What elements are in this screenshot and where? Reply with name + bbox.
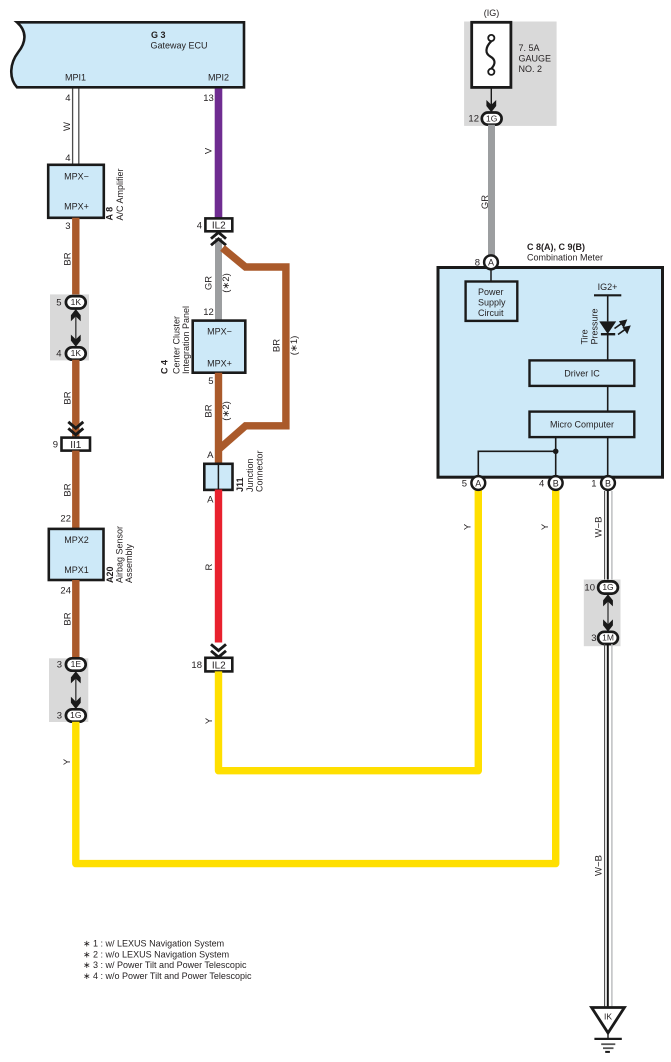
- wire Y from IL2 pin 18 to combination meter pin 5A: [219, 491, 479, 771]
- svg-text:A 8: A 8: [105, 207, 115, 221]
- svg-text:IK: IK: [604, 1012, 612, 1022]
- svg-text:9: 9: [53, 440, 58, 451]
- svg-text:10: 10: [584, 583, 595, 594]
- svg-text:Power: Power: [478, 287, 504, 297]
- svg-text:3: 3: [57, 660, 62, 671]
- svg-text:J11: J11: [235, 477, 245, 492]
- svg-text:A: A: [207, 450, 214, 461]
- connector 12 (1G): [482, 113, 502, 125]
- pin 8 (A): [484, 255, 498, 269]
- power supply circuit box: [466, 282, 518, 321]
- wire micro computer to pin 1B: [607, 437, 609, 477]
- wire micro computer to junction: [555, 437, 557, 477]
- svg-text:Connector: Connector: [255, 450, 265, 492]
- connector 3 (1M): [598, 632, 618, 644]
- svg-text:Y: Y: [463, 523, 474, 530]
- svg-text:Pressure: Pressure: [590, 308, 600, 344]
- junction dot: [553, 449, 559, 455]
- svg-text:1: 1: [591, 479, 596, 490]
- center cluster integration panel C4 box: [193, 321, 246, 373]
- svg-text:1G: 1G: [70, 710, 81, 720]
- wire V (purple) MPI2 to IL2: [215, 89, 223, 219]
- svg-text:∗ 1 : w/ LEXUS Navigation Syst: ∗ 1 : w/ LEXUS Navigation System: [83, 939, 224, 949]
- svg-text:IG2+: IG2+: [598, 282, 618, 292]
- svg-text:(∗2): (∗2): [221, 273, 232, 293]
- A/C amplifier A8 box: [48, 165, 104, 218]
- svg-text:IL2: IL2: [212, 221, 226, 232]
- micro computer box: [530, 412, 635, 438]
- svg-text:4: 4: [197, 220, 202, 231]
- svg-text:Airbag Sensor: Airbag Sensor: [115, 526, 125, 583]
- svg-text:MPX+: MPX+: [207, 358, 232, 368]
- svg-text:NO. 2: NO. 2: [519, 64, 543, 74]
- svg-text:24: 24: [60, 586, 71, 597]
- wire BR II1 to airbag sensor: [72, 451, 79, 529]
- svg-text:5: 5: [208, 376, 213, 387]
- double arrow between 1E and 1G: [75, 676, 77, 704]
- svg-text:4: 4: [56, 349, 61, 360]
- gateway ECU G3 box: [11, 22, 244, 87]
- wire pin A to power supply circuit: [490, 270, 492, 282]
- wire junction to pin 5A: [478, 451, 555, 477]
- svg-text:A: A: [475, 478, 481, 488]
- wire BR airbag sensor to 1E: [72, 580, 79, 659]
- svg-text:1E: 1E: [71, 659, 82, 669]
- svg-text:12: 12: [468, 114, 479, 125]
- connector block 1G/1M gray box: [584, 580, 621, 647]
- svg-text:Circuit: Circuit: [478, 308, 504, 318]
- connector IL2 (pin 4): [205, 218, 232, 231]
- wire W (white) MPI1 to A/C amplifier: [72, 89, 74, 165]
- svg-text:∗ 4 : w/o Power Tilt and Power: ∗ 4 : w/o Power Tilt and Power Telescopi…: [83, 971, 252, 981]
- svg-text:C 8(A), C 9(B): C 8(A), C 9(B): [527, 242, 585, 252]
- pin 4 (B): [549, 476, 563, 490]
- wire Y from connector 1G to combination meter pin 4B: [76, 491, 556, 864]
- connector 3 (1E): [66, 658, 86, 670]
- svg-text:MPI2: MPI2: [208, 73, 229, 83]
- wire BR A/C amplifier to 1K: [72, 218, 79, 297]
- svg-text:3: 3: [65, 221, 70, 232]
- svg-text:Junction: Junction: [245, 458, 255, 492]
- svg-text:3: 3: [57, 711, 62, 722]
- svg-text:5: 5: [56, 297, 61, 308]
- svg-text:GAUGE: GAUGE: [519, 54, 552, 64]
- svg-text:Center Cluster: Center Cluster: [172, 316, 182, 374]
- wire LED to driver IC: [607, 334, 609, 360]
- junction connector J11: [204, 464, 232, 490]
- svg-text:Y: Y: [62, 758, 73, 765]
- combination meter box: [438, 268, 663, 478]
- svg-text:GR: GR: [480, 195, 491, 209]
- svg-text:MPX−: MPX−: [207, 327, 232, 337]
- fuse block gray box: [464, 22, 556, 126]
- connector 10 (1G): [598, 581, 618, 593]
- wire driver IC to micro computer: [607, 386, 609, 412]
- svg-text:18: 18: [191, 660, 202, 671]
- svg-text:W−B: W−B: [594, 517, 605, 538]
- connector 5 (1K): [66, 296, 86, 308]
- svg-text:BR: BR: [62, 391, 73, 404]
- svg-text:7. 5A: 7. 5A: [519, 43, 540, 53]
- double arrow between 1G and 1M: [607, 599, 609, 626]
- svg-text:MPX2: MPX2: [64, 535, 89, 545]
- svg-text:Driver IC: Driver IC: [564, 369, 600, 379]
- svg-text:G 3: G 3: [151, 30, 166, 40]
- svg-text:IL2: IL2: [212, 661, 226, 672]
- wire GR (*2) IL2 to center cluster: [215, 238, 222, 321]
- wire GR fuse to combination meter: [488, 125, 495, 255]
- wire R J11 to IL2: [215, 490, 222, 643]
- wire W-B pin 1B to connector 1G: [605, 491, 612, 582]
- svg-text:W: W: [62, 122, 73, 131]
- svg-text:C 4: C 4: [160, 360, 170, 374]
- svg-text:A: A: [488, 258, 494, 268]
- svg-text:BR: BR: [62, 252, 73, 265]
- ground IK: [592, 1008, 625, 1052]
- svg-text:B: B: [553, 478, 559, 488]
- svg-text:BR: BR: [272, 339, 283, 352]
- svg-text:1K: 1K: [71, 348, 82, 358]
- chevrons above II1: [68, 422, 83, 428]
- fuse 7.5A GAUGE NO.2: [472, 22, 511, 87]
- wire BR 1K to II1: [72, 360, 79, 438]
- chevrons below IL2 pin 4: [211, 232, 226, 238]
- svg-text:(∗1): (∗1): [289, 336, 300, 356]
- wire W-B connector 1M to ground: [605, 644, 612, 1008]
- connector II1: [62, 438, 91, 451]
- svg-text:A/C Amplifier: A/C Amplifier: [115, 168, 125, 220]
- svg-text:A20: A20: [105, 566, 115, 583]
- svg-text:MPX1: MPX1: [64, 565, 89, 575]
- svg-text:4: 4: [65, 93, 70, 104]
- svg-text:W−B: W−B: [594, 855, 605, 876]
- arrow from fuse to connector 1G: [490, 87, 492, 106]
- connector block 1K gray box: [50, 294, 89, 360]
- svg-text:4: 4: [539, 479, 544, 490]
- airbag sensor assembly A20 box: [49, 529, 104, 580]
- wire BR (*1) bypass loop: [220, 248, 286, 449]
- svg-text:MPX−: MPX−: [64, 172, 89, 182]
- svg-text:A: A: [207, 495, 214, 506]
- svg-text:4: 4: [65, 153, 70, 164]
- svg-text:Tire: Tire: [580, 329, 590, 344]
- svg-text:22: 22: [60, 514, 71, 525]
- svg-text:Integration Panel: Integration Panel: [181, 306, 191, 374]
- svg-text:R: R: [204, 563, 215, 570]
- svg-text:Supply: Supply: [478, 298, 506, 308]
- connector IL2 (pin 18): [205, 658, 232, 672]
- svg-text:∗ 2 : w/o LEXUS Navigation Sys: ∗ 2 : w/o LEXUS Navigation System: [83, 949, 229, 959]
- svg-text:13: 13: [203, 93, 214, 104]
- svg-text:Micro Computer: Micro Computer: [550, 420, 614, 430]
- svg-text:1G: 1G: [486, 113, 497, 123]
- svg-text:Y: Y: [204, 717, 215, 724]
- svg-text:8: 8: [475, 258, 480, 269]
- svg-text:BR: BR: [62, 612, 73, 625]
- double arrow between 1K ovals: [75, 314, 77, 341]
- svg-text:Y: Y: [540, 523, 551, 530]
- driver IC box: [530, 360, 635, 386]
- chevrons above IL2 pin 18: [211, 644, 226, 650]
- svg-text:B: B: [605, 478, 611, 488]
- svg-text:MPI1: MPI1: [65, 73, 86, 83]
- pin 5 (A): [471, 476, 485, 490]
- LED tire pressure: [599, 321, 616, 334]
- svg-text:V: V: [204, 147, 215, 154]
- connector block 1E/1G gray box: [49, 658, 88, 722]
- wire IG2+ to LED: [607, 295, 609, 321]
- svg-text:1M: 1M: [602, 633, 614, 643]
- svg-text:3: 3: [591, 633, 596, 644]
- svg-text:MPX+: MPX+: [64, 202, 89, 212]
- svg-text:1K: 1K: [71, 297, 82, 307]
- svg-text:5: 5: [462, 479, 467, 490]
- svg-text:(∗2): (∗2): [221, 401, 232, 421]
- svg-text:(IG): (IG): [484, 8, 500, 18]
- svg-text:GR: GR: [204, 276, 215, 290]
- svg-text:∗ 3 : w/ Power Tilt and Power: ∗ 3 : w/ Power Tilt and Power Telescopic: [83, 960, 247, 970]
- svg-text:1G: 1G: [602, 582, 613, 592]
- svg-text:Assembly: Assembly: [124, 543, 134, 583]
- svg-text:II1: II1: [70, 440, 82, 451]
- svg-text:Combination Meter: Combination Meter: [527, 253, 603, 263]
- connector 4 (1K): [66, 347, 86, 359]
- svg-text:12: 12: [203, 307, 214, 318]
- svg-text:Gateway ECU: Gateway ECU: [151, 41, 208, 51]
- svg-text:BR: BR: [204, 404, 215, 417]
- wire BR (*2) center cluster to J11: [215, 373, 222, 466]
- connector 3 (1G): [66, 709, 86, 721]
- pin 1 (B): [601, 476, 615, 490]
- svg-text:BR: BR: [62, 483, 73, 496]
